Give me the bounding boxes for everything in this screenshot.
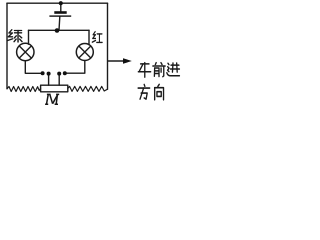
node junction on bus — [55, 28, 60, 33]
arrow car direction shaft — [108, 60, 123, 62]
wire motor left stub — [48, 74, 50, 85]
wire left frame vertical — [6, 3, 8, 89]
lamp L2 red circle — [76, 44, 93, 61]
wire motor right stub — [58, 74, 60, 85]
wire battery bottom lead — [58, 17, 61, 31]
motor M body box — [41, 85, 68, 92]
label red lamp 红 — [92, 32, 102, 43]
node contact 3 — [57, 72, 61, 76]
wire lamp distribution bus — [29, 29, 90, 31]
node junction on top wire — [59, 1, 63, 5]
lamp L2 cross — [79, 46, 91, 58]
wire left lamp bottom lead — [25, 61, 41, 73]
node contact 1 — [41, 71, 45, 75]
wire top horizontal — [7, 2, 108, 4]
arrow car direction head — [123, 58, 132, 64]
lamp L1 cross — [19, 46, 31, 58]
label 车 — [138, 63, 150, 78]
resistor spring left zigzag — [7, 87, 41, 92]
wire left lamp top lead — [28, 30, 30, 44]
motor label M — [45, 94, 59, 104]
node contact 4 — [63, 71, 67, 75]
label 方 — [138, 85, 150, 100]
wire right frame vertical — [107, 3, 109, 89]
battery cell E thin plate — [49, 15, 71, 16]
label green lamp 绿 — [8, 30, 22, 42]
label 向 — [155, 84, 164, 99]
wire right lamp top lead — [88, 30, 90, 45]
label 进 — [167, 63, 180, 76]
node contact 2 — [47, 72, 51, 76]
lamp L1 green circle — [17, 43, 34, 60]
battery cell E thick plate — [54, 11, 66, 14]
label 前 — [153, 63, 165, 77]
wire battery top lead — [60, 3, 62, 11]
resistor spring right zigzag — [68, 86, 108, 91]
wire right lamp bottom lead — [65, 61, 85, 74]
